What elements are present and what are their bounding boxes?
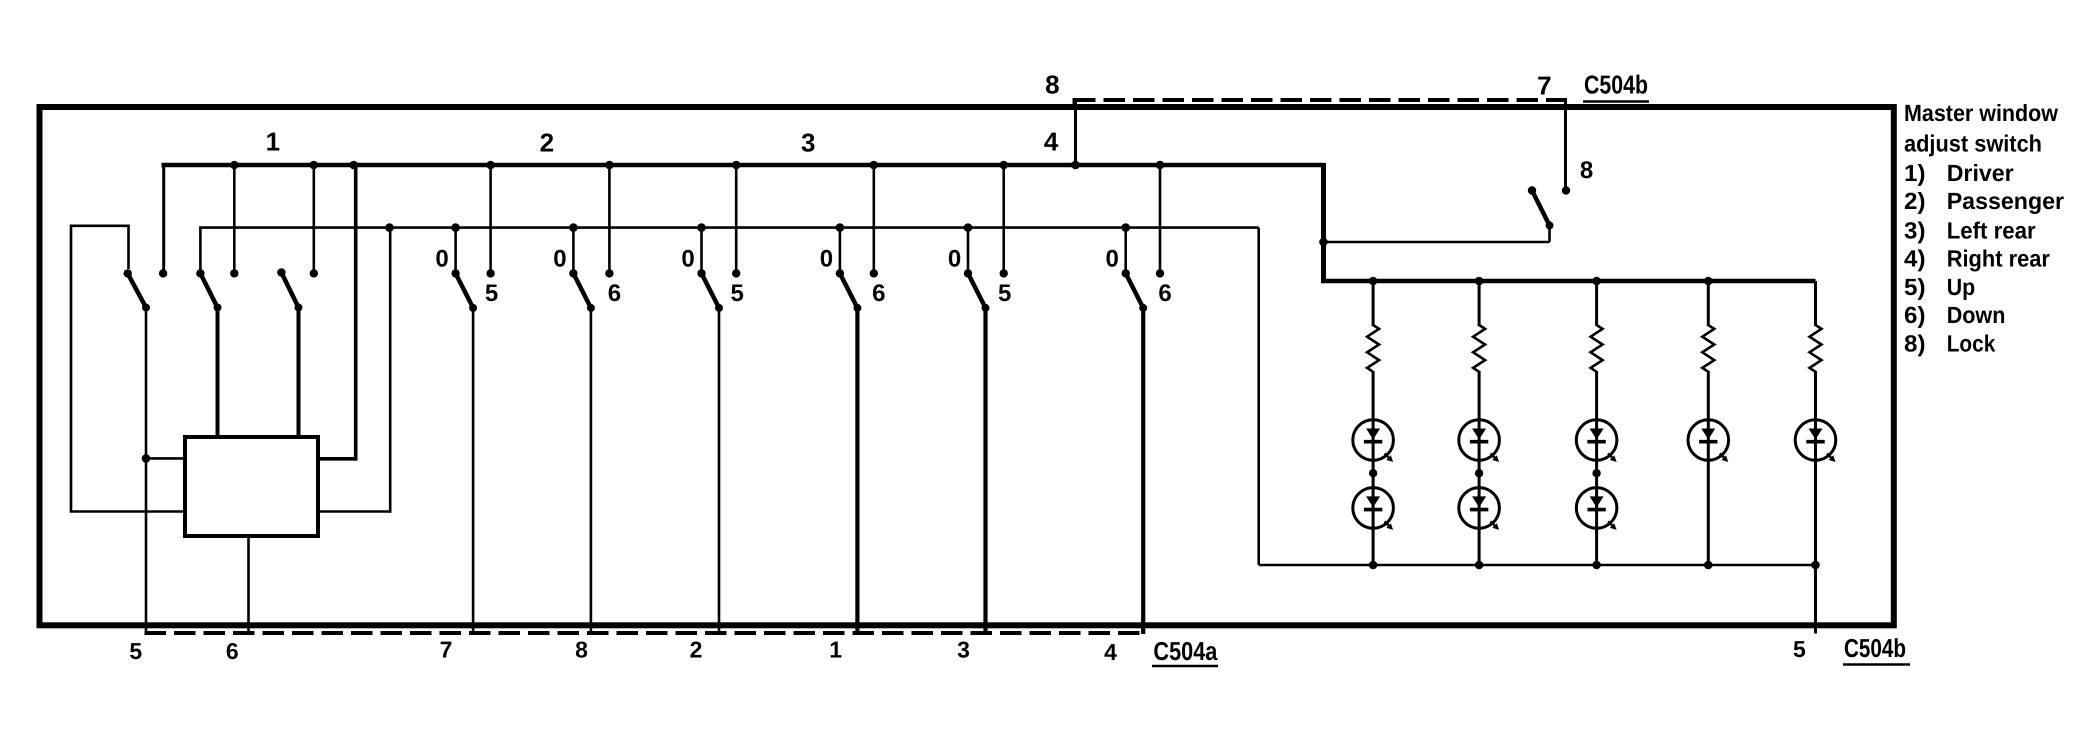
wire common bus right end down to lamp return bus <box>1257 228 1260 565</box>
wire R2 to lamp <box>1478 371 1481 421</box>
wire right-rear-down output to C504a <box>1141 308 1145 634</box>
wire C504b pin8 to circuit-4 bus <box>1074 100 1077 165</box>
wire R5 to lamp <box>1814 371 1817 421</box>
svg-text:6: 6 <box>872 280 885 307</box>
wire bus left end down to driver switch contact <box>162 163 165 270</box>
junction on top bus #2 <box>310 161 319 170</box>
svg-text:Down: Down <box>1947 302 2006 328</box>
junction SW1 output to lock block <box>142 454 184 463</box>
junction lock wire on thick drop <box>1319 238 1328 247</box>
wire bus circuits 1-4 horizontal <box>162 163 1324 168</box>
wire right-rear-up pivot from common bus <box>967 228 970 270</box>
switch right-rear-down pivot dot <box>1122 269 1130 277</box>
legend master window adjust switch <box>1904 100 2064 357</box>
junction on top bus #5 <box>605 161 614 170</box>
resistor R3 <box>1591 325 1603 372</box>
switch passenger-down contact dot <box>605 269 613 277</box>
wire SW2 output to lock block top <box>216 308 220 440</box>
wire driver pivot to lock block lower-left <box>71 226 184 512</box>
wire right-rear-up output to C504a <box>983 308 987 634</box>
svg-text:0: 0 <box>553 245 566 272</box>
wire lock block right upper to bus <box>318 165 356 461</box>
LED lamp D5 <box>1576 420 1617 462</box>
switch passenger-down lever <box>573 273 595 312</box>
svg-text:0: 0 <box>948 245 961 272</box>
svg-text:4): 4) <box>1904 246 1926 272</box>
label 6 at right-rear-down <box>1158 280 1171 307</box>
switch SW3 pivot dot <box>277 268 285 276</box>
wire lock block right lower to common bus <box>318 228 390 513</box>
junction on top bus #6 <box>732 161 741 170</box>
junction on common bus #3 <box>569 223 578 232</box>
switch left-rear-down pivot dot <box>836 269 844 277</box>
wire lamp branch 4 upper <box>1707 281 1710 326</box>
svg-text:0: 0 <box>820 245 833 272</box>
junction lamp feed bus #4 <box>1704 277 1713 286</box>
junction on top bus #4 <box>486 161 495 170</box>
wire lamp branch 3 upper <box>1595 281 1598 326</box>
wire passenger-down pivot from common bus <box>572 228 575 270</box>
wire SW3 output to lock block top <box>297 308 301 440</box>
pin 1 label C504a <box>829 637 842 663</box>
wire left-rear-up contact from circuit bus <box>735 165 738 270</box>
lamp feed bus (thick) <box>1321 279 1816 284</box>
wire left-rear-down pivot from common bus <box>839 228 842 270</box>
svg-text:8: 8 <box>1045 70 1059 100</box>
svg-text:7: 7 <box>440 637 453 663</box>
switch SW2 pivot dot <box>196 269 204 277</box>
wire lamp branch 2 upper <box>1478 281 1481 326</box>
label 0 at right-rear-down <box>1106 245 1119 272</box>
switch passenger-down pivot dot <box>569 269 577 277</box>
switch SW2 contact dot <box>230 269 238 277</box>
wire SW1 output to pin 5 C504a <box>145 308 148 635</box>
svg-text:4: 4 <box>1044 126 1059 156</box>
circuit label 2 <box>540 127 554 157</box>
svg-text:8: 8 <box>575 637 588 663</box>
switch SW1 lever <box>128 273 150 311</box>
pin 8 label C504a <box>575 637 588 663</box>
junction between D5 and D6 <box>1592 460 1600 488</box>
switch SW3 lever <box>281 273 302 312</box>
switch right-rear-up lever <box>968 273 990 312</box>
junction lamp return bus #4 <box>1704 561 1713 570</box>
wire lock lever to thick bus drop <box>1322 225 1550 242</box>
svg-text:Up: Up <box>1947 274 1975 300</box>
junction on common bus #6 <box>964 223 973 232</box>
lamp return bus <box>1259 564 1816 567</box>
junction lamp feed bus #2 <box>1475 277 1484 286</box>
svg-text:6: 6 <box>1158 280 1171 307</box>
junction on common bus #2 <box>451 223 460 232</box>
junction on common bus #4 <box>697 223 706 232</box>
junction on top bus #7 <box>870 161 879 170</box>
svg-text:0: 0 <box>435 245 448 272</box>
svg-text:Master window: Master window <box>1904 100 2059 126</box>
wire D4 to return bus <box>1478 528 1481 565</box>
svg-text:C504b: C504b <box>1844 633 1906 663</box>
pin 2 label C504a <box>690 637 703 663</box>
junction lamp return bus #3 <box>1592 561 1601 570</box>
svg-text:3): 3) <box>1904 217 1926 243</box>
LED lamp D3 <box>1459 420 1500 462</box>
label 6 at passenger-down <box>608 280 621 307</box>
switch left-rear-down lever <box>840 273 862 312</box>
svg-text:0: 0 <box>681 245 694 272</box>
switch left-rear-up contact dot <box>732 269 740 277</box>
wire lock contact to C504b pin 7 <box>1564 100 1567 187</box>
svg-text:5: 5 <box>485 280 498 307</box>
lock switch contact dot <box>1562 186 1570 194</box>
svg-text:5): 5) <box>1904 274 1926 300</box>
wire R1 to lamp <box>1372 371 1375 421</box>
circuit label 3 <box>801 127 815 157</box>
wire lamp branch 5 upper <box>1814 281 1817 326</box>
junction lamp feed bus #3 <box>1592 277 1601 286</box>
label 0 at left-rear-up <box>681 245 694 272</box>
switch left-rear-up lever <box>702 273 724 312</box>
switch passenger-up pivot dot <box>451 269 459 277</box>
resistor R2 <box>1473 325 1485 372</box>
junction between D1 and D2 <box>1369 460 1377 488</box>
svg-text:1): 1) <box>1904 160 1926 186</box>
label 0 at passenger-up <box>435 245 448 272</box>
circuit label 4 <box>1044 126 1059 156</box>
wire right-rear-up contact from circuit bus <box>1002 165 1005 270</box>
wire D2 to return bus <box>1372 528 1375 565</box>
svg-text:1: 1 <box>266 126 280 156</box>
wire passenger-down contact from circuit bus <box>608 165 611 270</box>
pin 7 label C504b <box>1537 70 1551 100</box>
resistor R5 <box>1810 325 1822 372</box>
LED lamp D9 <box>1795 420 1836 462</box>
pin 3 label C504a <box>957 637 970 663</box>
label 5 at passenger-up <box>485 280 498 307</box>
wire D6 to return bus <box>1595 528 1598 565</box>
junction on top bus #10 <box>1156 161 1165 170</box>
wire D7 to return bus <box>1707 460 1710 565</box>
svg-text:Lock: Lock <box>1947 331 1996 357</box>
junction lamp return bus #1 <box>1369 561 1378 570</box>
connector C504a bottom dashed line <box>145 631 1147 635</box>
wire left-rear-up pivot from common bus <box>700 228 703 270</box>
junction lamp return bus #5 <box>1811 561 1820 570</box>
wire right-rear-down pivot from common bus <box>1124 228 1127 270</box>
switch right-rear-down contact dot <box>1156 269 1164 277</box>
switch SW1 pivot dot <box>124 269 132 277</box>
svg-text:2: 2 <box>540 127 554 157</box>
wire left-rear-up output to C504a <box>718 308 721 634</box>
svg-text:Left rear: Left rear <box>1947 217 2036 243</box>
label 0 at right-rear-up <box>948 245 961 272</box>
master window switch housing boundary <box>40 107 1894 625</box>
label 6 at left-rear-down <box>872 280 885 307</box>
svg-text:Driver: Driver <box>1947 160 2014 186</box>
junction on top bus #3 <box>349 161 358 170</box>
junction on common bus #1 <box>385 223 394 232</box>
wire R4 to lamp <box>1707 371 1710 421</box>
lock switch lever <box>1532 191 1554 230</box>
pin 8 label C504b <box>1045 70 1059 100</box>
switch passenger-up contact dot <box>486 269 494 277</box>
wire bus right end down to lamp bus (thick) <box>1321 163 1326 283</box>
switch right-rear-up pivot dot <box>964 269 972 277</box>
wire common bus left end down to passenger pivot <box>199 228 202 270</box>
pin 5 label C504a <box>129 638 142 664</box>
svg-text:5: 5 <box>731 280 744 307</box>
junction lamp feed bus #1 <box>1369 277 1378 286</box>
switch left-rear-down contact dot <box>870 269 878 277</box>
switch SW2 lever <box>200 273 221 311</box>
pin 6 label C504a <box>226 638 239 664</box>
wire passenger-up contact from circuit bus <box>489 165 492 270</box>
resistor R1 <box>1367 325 1379 372</box>
wire SW3 contact from bus <box>312 165 315 270</box>
junction on common bus #5 <box>836 223 845 232</box>
connector C504b top dashed line <box>1074 98 1566 108</box>
svg-text:3: 3 <box>957 637 970 663</box>
svg-text:Right rear: Right rear <box>1947 246 2050 272</box>
svg-text:C504b: C504b <box>1584 70 1648 100</box>
connector C504a name <box>1152 636 1218 666</box>
switch SW3 contact dot <box>310 269 318 277</box>
LED lamp D4 <box>1459 488 1500 530</box>
svg-text:1: 1 <box>829 637 842 663</box>
switch right-rear-up contact dot <box>1000 269 1008 277</box>
svg-text:5: 5 <box>129 638 142 664</box>
wire lock block bottom to pin 6 C504a <box>247 536 250 634</box>
wire R3 to lamp <box>1595 371 1598 421</box>
circuit label 1 <box>266 126 280 156</box>
svg-text:2): 2) <box>1904 188 1926 214</box>
svg-text:Passenger: Passenger <box>1947 188 2064 214</box>
switch passenger-up lever <box>456 273 478 312</box>
connector C504b name top <box>1583 70 1649 102</box>
label 0 at left-rear-down <box>820 245 833 272</box>
LED lamp D2 <box>1353 488 1394 530</box>
LED lamp D7 <box>1688 420 1729 462</box>
label 8 at lock switch <box>1580 157 1593 184</box>
pin 7 label C504a <box>440 637 453 663</box>
svg-text:adjust switch: adjust switch <box>1904 130 2042 156</box>
label 5 at left-rear-up <box>731 280 744 307</box>
wire D9 to return bus <box>1814 460 1817 565</box>
wire switch common bus horizontal <box>199 226 1259 229</box>
wire passenger-up output to C504a <box>472 308 475 634</box>
junction lamp return bus #2 <box>1475 561 1484 570</box>
wire passenger-down output to C504a <box>590 308 593 634</box>
svg-text:6: 6 <box>226 638 239 664</box>
svg-text:3: 3 <box>801 127 815 157</box>
junction between D3 and D4 <box>1475 460 1483 488</box>
connector C504b name bottom <box>1843 633 1910 664</box>
label 5 at right-rear-up <box>998 280 1011 307</box>
wire lamp branch 1 upper <box>1372 281 1375 326</box>
switch SW1 contact dot <box>159 269 167 277</box>
wire left-rear-down output to C504a <box>855 308 859 634</box>
switch left-rear-up pivot dot <box>697 269 705 277</box>
pin 5 label C504b bottom <box>1793 636 1806 662</box>
wire right-rear-down contact from circuit bus <box>1159 165 1162 270</box>
wire passenger-up pivot from common bus <box>454 228 457 270</box>
resistor R4 <box>1702 325 1714 372</box>
wire left-rear-down contact from circuit bus <box>872 165 875 270</box>
junction on common bus #7 <box>1121 223 1130 232</box>
svg-text:8): 8) <box>1904 331 1926 357</box>
svg-text:4: 4 <box>1104 639 1117 665</box>
svg-text:C504a: C504a <box>1153 636 1217 666</box>
junction on top bus #9 <box>1071 161 1080 170</box>
svg-text:5: 5 <box>1793 636 1806 662</box>
LED lamp D6 <box>1576 488 1617 530</box>
junction on top bus #1 <box>230 161 239 170</box>
lock switch pivot dot <box>1528 186 1536 194</box>
svg-text:7: 7 <box>1537 70 1551 100</box>
svg-text:6: 6 <box>608 280 621 307</box>
label 0 at passenger-down <box>553 245 566 272</box>
wire return bus to C504b pin 5 <box>1814 565 1817 634</box>
svg-text:0: 0 <box>1106 245 1119 272</box>
svg-text:8: 8 <box>1580 157 1593 184</box>
LED lamp D1 <box>1353 420 1394 462</box>
lock block box <box>185 437 318 536</box>
pin 4 label C504a <box>1104 639 1117 665</box>
svg-text:6): 6) <box>1904 302 1926 328</box>
wire SW2 contact from bus <box>233 165 236 270</box>
svg-text:5: 5 <box>998 280 1011 307</box>
svg-text:2: 2 <box>690 637 703 663</box>
junction on top bus #8 <box>999 161 1008 170</box>
switch right-rear-down lever <box>1126 273 1148 312</box>
